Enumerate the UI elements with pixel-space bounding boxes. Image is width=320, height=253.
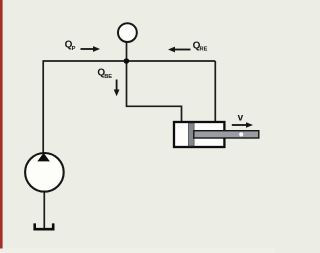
pump P bbox=[25, 153, 64, 192]
arrow v bbox=[232, 122, 253, 128]
arrow Q_BE bbox=[114, 80, 120, 97]
pressure gauge bbox=[118, 23, 137, 42]
svg-text:RE: RE bbox=[200, 46, 208, 52]
arrow Q_RE bbox=[168, 47, 191, 53]
label Q_BE bbox=[97, 68, 112, 80]
cylinder body bbox=[174, 122, 224, 147]
wire: left vertical to pump bbox=[42, 60, 44, 153]
wire: branch to cylinder cap-side port bbox=[127, 61, 182, 122]
cylinder rod bbox=[194, 131, 259, 138]
svg-text:P: P bbox=[72, 46, 76, 52]
wire: main pressure line bbox=[43, 60, 215, 62]
svg-text:BE: BE bbox=[104, 74, 112, 80]
arrow Q_P bbox=[81, 46, 101, 52]
label Q_P bbox=[65, 40, 76, 52]
wire: pump to tank bbox=[43, 193, 45, 229]
tank symbol bbox=[35, 223, 54, 229]
wire: gauge stub bbox=[126, 41, 128, 61]
wire: right vertical to cylinder rod-side port bbox=[214, 61, 216, 122]
node: junction dot bbox=[124, 58, 130, 64]
rod pin dot bbox=[239, 132, 243, 136]
cylinder piston bbox=[188, 123, 194, 146]
svg-text:v: v bbox=[238, 113, 244, 124]
label Q_RE bbox=[193, 40, 208, 52]
